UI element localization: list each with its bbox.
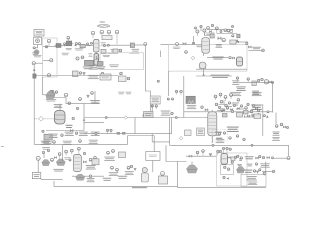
label heap bl-2 xyxy=(53,169,63,172)
arrow into R xyxy=(83,118,85,121)
wire title to compressor xyxy=(38,36,40,37)
instrument br-8 xyxy=(227,168,229,170)
instrument arrow mid xyxy=(212,144,214,146)
wire tangle a xyxy=(219,100,225,105)
heat exchanger E-101 xyxy=(55,44,63,48)
stream tag left xyxy=(1,146,4,147)
instrument PI-25 xyxy=(224,29,227,32)
wire bl bottom xyxy=(72,175,104,177)
instrument junction mid xyxy=(267,111,269,113)
valve c-1 xyxy=(205,109,208,111)
valve tg-1 xyxy=(230,109,232,111)
label under C-301 xyxy=(216,139,225,143)
instrument dot y xyxy=(157,80,159,82)
wire drop 152 xyxy=(151,134,153,142)
valve tri-6 xyxy=(134,168,137,171)
label cz xyxy=(103,55,110,57)
instrument PI-21 xyxy=(196,30,199,36)
instrument blx-4 xyxy=(69,159,71,161)
arrow br-row xyxy=(244,115,246,117)
label R-201 right xyxy=(65,125,72,128)
valve tr-x1 xyxy=(209,31,211,33)
dash mark a xyxy=(215,132,222,133)
tr bottom smudges xyxy=(211,75,230,78)
label M-2 xyxy=(145,113,152,116)
instrument br-5 xyxy=(234,156,236,158)
label ml-2 xyxy=(54,104,63,108)
wire recycle step xyxy=(127,136,129,145)
column C-201 xyxy=(202,38,210,54)
label r6 xyxy=(273,132,280,136)
instrument fr-end xyxy=(287,157,290,160)
label band1 xyxy=(88,75,99,79)
cooler E-302 xyxy=(254,114,261,119)
condenser E-301 xyxy=(237,113,243,118)
label S-1 xyxy=(46,99,56,101)
instrument dot aw xyxy=(218,133,220,135)
instrument c2 xyxy=(219,93,222,98)
pump box br xyxy=(220,165,233,175)
instrument br-3 xyxy=(217,150,219,155)
label c-row top b xyxy=(252,92,262,96)
label right of C-401 xyxy=(86,165,96,169)
title box text xyxy=(35,31,42,35)
arrow EA-1 xyxy=(237,41,239,43)
spec box empty xyxy=(146,152,160,161)
relief box b xyxy=(237,34,240,38)
valve blx-1 xyxy=(54,157,56,159)
label E-104 xyxy=(132,49,140,53)
pump P-201 xyxy=(199,62,206,69)
instrument ml-c2 xyxy=(76,107,78,109)
instrument dot e xyxy=(101,72,103,74)
instrument dot g xyxy=(127,77,130,80)
instrument dot at xyxy=(231,110,233,112)
pump mb xyxy=(141,167,148,182)
instrument PI-12 xyxy=(144,43,147,46)
wire border vert b xyxy=(171,118,173,134)
furnace H-201 xyxy=(46,92,55,100)
instrument PI-26 xyxy=(227,29,230,32)
pump P-202 xyxy=(264,80,268,85)
wire long recycle right xyxy=(170,144,289,146)
instrument dot m xyxy=(185,51,188,54)
wire y122 stub xyxy=(84,121,104,123)
tiny label b xyxy=(126,92,132,95)
wire E-101 to E-102 xyxy=(62,45,69,47)
instrument tr-x3 xyxy=(220,30,222,32)
instrument j4 xyxy=(251,144,253,146)
label fr-3 xyxy=(244,170,252,173)
instrument bl-2 xyxy=(51,158,54,161)
wire diamond2 xyxy=(43,118,56,120)
diamond mix-1 xyxy=(191,56,195,60)
instrument dot ad xyxy=(42,130,44,132)
label br-1 xyxy=(239,159,242,161)
instrument dot as xyxy=(226,107,228,109)
label mb-2 xyxy=(109,172,119,176)
instrument mb-2 xyxy=(112,150,115,153)
instrument tg-3 xyxy=(233,104,235,106)
wire mid long xyxy=(184,111,273,113)
instrument dot az xyxy=(243,138,245,140)
arrow br-row2 xyxy=(266,115,268,118)
wire tangle b xyxy=(226,106,232,108)
exchanger tz-2 xyxy=(244,111,249,115)
heap br-1 xyxy=(187,165,198,173)
instrument dot an xyxy=(201,106,203,108)
wire header h2 xyxy=(43,46,57,48)
heap bl-2 xyxy=(56,159,65,166)
valve tr-2 xyxy=(232,57,235,59)
instrument br-2 xyxy=(202,150,205,156)
tick t1 xyxy=(75,45,77,46)
diamond mid flow xyxy=(179,137,183,141)
instrument fr-5 xyxy=(271,157,273,159)
valve r-1 xyxy=(269,81,272,83)
wire reactor top xyxy=(59,104,61,111)
instrument dot x2 xyxy=(286,126,288,128)
instrument c1 xyxy=(214,95,217,100)
wire fr stub xyxy=(274,157,287,159)
instrument dot k xyxy=(232,35,234,37)
instrument mb-4 xyxy=(116,168,119,171)
title box NOTE-1 xyxy=(34,30,44,37)
instrument bz-1 xyxy=(63,43,65,45)
instrument dot r xyxy=(257,79,259,81)
valve br-v xyxy=(228,156,231,158)
label tr bottom-left xyxy=(196,44,202,47)
wire drop 154 xyxy=(153,136,155,153)
instrument br-1 xyxy=(196,151,199,156)
valve HV-1 xyxy=(183,43,186,46)
valve ml-out xyxy=(70,129,73,131)
instrument bl-1 xyxy=(36,156,40,160)
instrument tz-3 xyxy=(252,104,254,106)
wire to vent xyxy=(249,49,262,51)
label col-right small xyxy=(101,42,106,46)
wire section left edge xyxy=(168,71,170,96)
valve fr-1 xyxy=(256,157,259,159)
instrument pz-1 xyxy=(167,98,169,100)
wire bl long xyxy=(41,179,63,181)
instrument dot am xyxy=(176,90,178,92)
valve tri-3 xyxy=(51,90,54,93)
valve bl-1 xyxy=(83,161,86,163)
wire C-201 bottoms xyxy=(203,53,205,56)
wire P-201 down xyxy=(203,69,205,76)
instrument br-6 xyxy=(237,155,239,157)
instrument dot aj xyxy=(110,129,112,133)
condenser E-103 xyxy=(101,49,106,53)
instrument bl-7 xyxy=(89,158,92,161)
instrument tr-x4 xyxy=(231,25,233,27)
instrument dot n xyxy=(229,56,231,58)
heap bl-3 xyxy=(76,174,85,180)
label utility 1 xyxy=(247,176,257,180)
valve br-1 xyxy=(189,155,192,157)
instrument FI-20 xyxy=(176,43,179,46)
instrument TI-6 xyxy=(67,36,70,41)
label reflux xyxy=(110,49,119,52)
instrument mb-3 xyxy=(111,166,114,169)
valve tri-4 xyxy=(87,95,90,98)
separator internals S-1 xyxy=(48,90,56,98)
label sep text xyxy=(212,57,223,60)
wire heap br-1 xyxy=(191,162,193,166)
dashed box c xyxy=(213,130,228,142)
valve V-2 body xyxy=(45,46,47,48)
tick t3 xyxy=(64,45,65,46)
wire R-201 right xyxy=(83,104,85,131)
instrument br-11 xyxy=(223,176,225,178)
small box bl xyxy=(185,130,192,136)
wire LI-5 to border xyxy=(36,62,43,64)
instrument PI-15 xyxy=(96,56,99,59)
instrument dot au xyxy=(245,107,248,110)
wire C-301 bottom xyxy=(211,136,213,143)
valve tri-8 xyxy=(256,171,259,174)
instrument dot j xyxy=(192,42,194,44)
extra label tl-b xyxy=(32,52,39,55)
label mid2 xyxy=(109,64,119,67)
furnace B-201 xyxy=(186,96,195,103)
label r3 xyxy=(252,91,259,95)
wire border vert a xyxy=(169,118,171,146)
label fr-2 xyxy=(260,163,270,167)
wire col feed xyxy=(94,91,96,104)
instrument TI-14 xyxy=(81,56,84,59)
valve tri-5 xyxy=(45,162,48,165)
wire recycle mid xyxy=(128,135,154,137)
instrument br-row1 xyxy=(238,115,240,117)
instrument dot w xyxy=(275,125,278,128)
instrument tg-4 xyxy=(240,105,242,107)
instrument dot o xyxy=(236,77,238,82)
furnace H-1 xyxy=(97,25,110,28)
wire tr mid xyxy=(232,41,248,43)
wire tz xyxy=(217,110,223,112)
wire tz2 xyxy=(248,111,254,113)
instrument j2 xyxy=(175,117,177,119)
instrument dot z xyxy=(55,91,57,93)
dash mark c xyxy=(216,138,222,139)
pump P-1 dark body xyxy=(33,74,36,78)
label FI-20 xyxy=(173,47,181,49)
wire bl corner xyxy=(53,181,55,187)
section boundary hydrogen unit xyxy=(43,38,58,77)
instrument dot ae xyxy=(61,134,63,136)
filter F-1 xyxy=(34,50,40,54)
drum D-3 xyxy=(100,74,111,80)
instrument PI-2 xyxy=(47,39,51,46)
arrow br xyxy=(226,177,229,179)
instrument dot ay xyxy=(236,135,238,137)
instrument FI-13 xyxy=(76,57,79,60)
wire right border c xyxy=(262,104,264,136)
instrument TI-27 xyxy=(222,38,225,41)
diamond ml xyxy=(39,116,44,121)
instrument blx-2 xyxy=(47,149,49,151)
extra label tl-a xyxy=(62,53,69,55)
label utility 2 xyxy=(248,182,258,185)
wire compressor out xyxy=(33,45,38,48)
wire diamond xyxy=(34,118,38,120)
instrument tg-2 xyxy=(228,102,230,104)
instrument bl-5 xyxy=(70,149,73,154)
wire border drop xyxy=(42,77,44,95)
label furnace top xyxy=(187,105,197,109)
instrument bl-9 xyxy=(89,175,92,178)
label r7 xyxy=(272,137,280,141)
label r1 xyxy=(232,80,239,84)
label product box xyxy=(33,174,39,177)
instrument FI-40 xyxy=(64,93,68,97)
wire tr link xyxy=(204,32,210,35)
tiny label a xyxy=(118,92,124,95)
label tr-1 xyxy=(205,33,214,35)
section text b xyxy=(130,52,139,55)
wire drop 212 xyxy=(211,110,213,143)
drum D-401 xyxy=(221,154,228,165)
instrument TI-8 xyxy=(100,30,104,35)
drum D-1 xyxy=(102,36,112,40)
instrument tz-4 xyxy=(257,109,259,111)
instrument dot ar xyxy=(221,109,223,111)
label E-105 xyxy=(83,66,93,69)
instrument dot aq xyxy=(225,104,228,107)
valve tg-2 xyxy=(243,112,245,114)
instrument bl-8 xyxy=(94,156,97,159)
label C-301 side xyxy=(227,127,239,132)
instrument j1 xyxy=(105,117,107,119)
wire tangle d xyxy=(246,116,254,118)
instrument ml-c1 xyxy=(72,117,74,119)
accumulator D-2 xyxy=(113,49,118,53)
instrument br-c1 xyxy=(222,147,224,153)
exchanger mb xyxy=(119,152,126,158)
utility box br xyxy=(241,174,266,186)
instrument dot av xyxy=(250,110,253,113)
cluster under stripper xyxy=(89,65,98,70)
instrument fr-corner xyxy=(263,172,266,175)
instrument fr-1 xyxy=(240,157,242,159)
instrument TI-22 xyxy=(203,29,206,35)
instrument br-row2 xyxy=(252,114,254,116)
label mb-1 xyxy=(104,157,114,161)
instrument dot b xyxy=(78,43,80,45)
instrument tr-x1 xyxy=(200,25,202,27)
left of column marks xyxy=(88,53,92,57)
wire bottoms xyxy=(35,75,57,77)
instrument junction r xyxy=(272,81,274,83)
wire cross 117 xyxy=(84,117,212,119)
instrument br-c2 xyxy=(226,147,228,153)
wire bl drop xyxy=(37,161,39,173)
exchanger E-201 xyxy=(252,81,256,86)
wire riser right xyxy=(146,46,151,116)
wire fr stub2 xyxy=(262,171,272,173)
column C-301 xyxy=(208,112,217,136)
section box br xyxy=(217,153,248,186)
wire column to stripper xyxy=(95,52,97,54)
mixer box M-1 xyxy=(150,96,160,104)
label row2 c xyxy=(89,140,98,144)
wire sep row xyxy=(207,57,228,59)
label bz xyxy=(66,48,72,50)
wire link 142 xyxy=(152,141,169,143)
instrument dot l xyxy=(246,42,248,44)
instrument dot ax xyxy=(229,137,231,139)
cooler E-104 xyxy=(130,43,134,48)
wire to S-1 xyxy=(43,94,49,96)
instrument j3 xyxy=(95,133,97,135)
stripper C-102 xyxy=(94,54,99,66)
label heap bl-3 xyxy=(87,178,95,182)
instrument TI-24 xyxy=(215,27,218,34)
exchanger E-108 xyxy=(98,62,104,66)
instrument j5 xyxy=(223,109,225,111)
instrument FI-23 xyxy=(207,27,210,30)
label P-203 xyxy=(43,141,53,144)
instrument dot x xyxy=(280,123,283,126)
label under-R 3 xyxy=(79,132,88,136)
label under-R 1 xyxy=(49,134,58,138)
label mb-4 xyxy=(103,178,112,181)
valve tz-1 xyxy=(237,107,240,109)
tick box b xyxy=(122,132,125,135)
wire M1 drop xyxy=(151,104,153,112)
wire product line xyxy=(106,44,130,46)
label r4 xyxy=(232,103,239,106)
column C-101 xyxy=(94,40,100,53)
reboiler box xyxy=(197,128,205,136)
heap bl-1 xyxy=(42,160,50,166)
valve c-2 xyxy=(247,115,250,117)
wire band B xyxy=(57,75,118,77)
valve fr-2 xyxy=(267,156,270,158)
instrument dot ac xyxy=(91,92,94,95)
label under-R 2 xyxy=(65,132,74,136)
instrument TI-3 xyxy=(50,59,53,62)
wire header 133 xyxy=(84,133,172,135)
tick t2 xyxy=(89,45,91,46)
wire reformer col feed xyxy=(193,36,195,44)
instrument tr-x5 xyxy=(194,27,196,29)
wire tr bottom row xyxy=(196,75,232,77)
heater box tr xyxy=(210,34,214,38)
instrument dot h xyxy=(151,105,153,109)
instrument dot ag xyxy=(53,141,56,144)
mixer M-2 xyxy=(144,112,154,118)
instrument mb-6 xyxy=(127,165,129,167)
label under-R 4 xyxy=(91,132,100,136)
label recycle gas xyxy=(252,47,261,49)
instrument PI-7 xyxy=(91,31,95,38)
wire H-201 out xyxy=(54,98,66,104)
instrument dot ak xyxy=(143,114,145,116)
compressor K-101 rotor xyxy=(36,39,40,43)
wire recycle end drop xyxy=(288,145,290,156)
instrument br-row4 xyxy=(263,115,265,117)
tank T-1 xyxy=(159,176,168,184)
instrument cz-1 xyxy=(103,45,105,47)
pump box P-203 xyxy=(44,134,52,140)
wire drop to cluster xyxy=(275,113,277,124)
instrument FI-9 xyxy=(107,30,111,36)
instrument dot ai xyxy=(106,129,108,133)
instrument FI-4 xyxy=(47,74,50,77)
